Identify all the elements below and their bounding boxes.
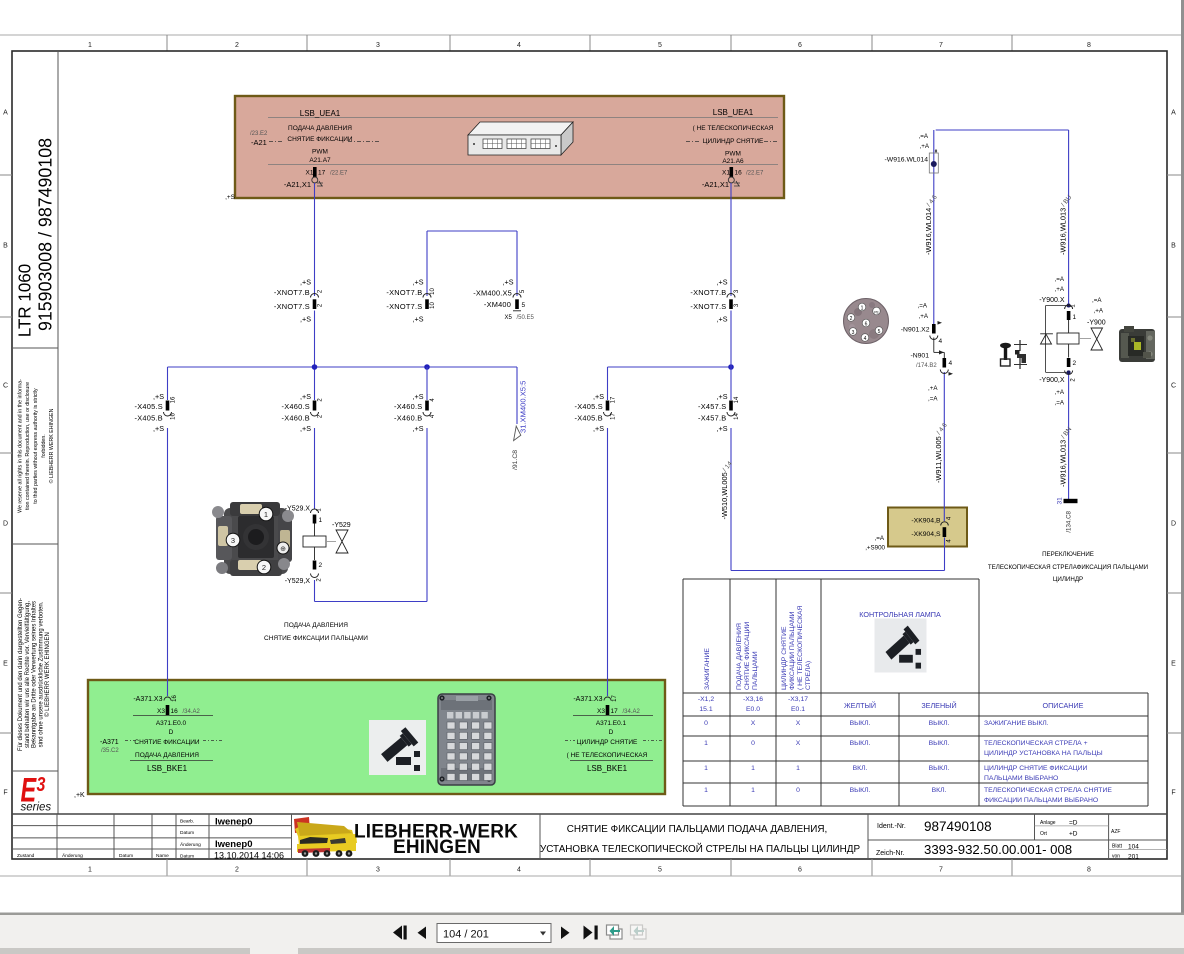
svg-text:ВЫКЛ.: ВЫКЛ. [929,740,950,747]
svg-text:0: 0 [796,787,800,794]
svg-text:-A371.X3: -A371.X3 [133,696,162,703]
svg-text:AZF: AZF [1111,829,1120,835]
svg-text:,+A: ,+A [1055,389,1065,396]
svg-text:E0.1: E0.1 [791,706,805,713]
svg-text:X1: X1 [722,170,730,177]
svg-text:ОПИСАНИЕ: ОПИСАНИЕ [1043,701,1084,710]
svg-text:Datum: Datum [180,854,194,860]
svg-text:© LIEBHERR WERK EHINGEN: © LIEBHERR WERK EHINGEN [48,408,55,483]
svg-text:© LIEBHERR WERK EHINGEN: © LIEBHERR WERK EHINGEN [44,632,51,717]
svg-text:ЦИЛИНДР: ЦИЛИНДР [1053,576,1083,583]
svg-text:X: X [751,720,756,727]
svg-text:-XM400: -XM400 [484,300,511,309]
svg-text:2: 2 [1073,360,1077,367]
svg-text:-Y529,X: -Y529,X [285,578,311,585]
svg-text:3: 3 [37,773,46,795]
svg-text:E: E [1171,661,1176,668]
svg-text:13.10.2014 14:06: 13.10.2014 14:06 [214,850,284,860]
svg-text:LSB_BKE1: LSB_BKE1 [147,764,188,773]
svg-text:0: 0 [751,740,755,747]
svg-text:PWM: PWM [725,151,741,158]
svg-text:,+S: ,+S [413,278,424,287]
svg-text:,+S: ,+S [300,278,311,287]
svg-text:17: 17 [318,170,326,177]
svg-text:10: 10 [430,302,436,309]
svg-text:/22.E7: /22.E7 [746,171,764,177]
svg-text:,+A: ,+A [920,143,930,150]
svg-text:16: 16 [171,413,177,420]
svg-text:-X3,16: -X3,16 [743,696,763,703]
svg-text:ЦИЛИНДР СНЯТИЕ: ЦИЛИНДР СНЯТИЕ [577,739,638,746]
svg-text:ПОДАЧА ДАВЛЕНИЯ: ПОДАЧА ДАВЛЕНИЯ [736,623,743,690]
svg-text:,+A: ,+A [928,385,938,392]
svg-text:PE: PE [874,311,879,315]
svg-text:-X457.S: -X457.S [698,402,726,411]
svg-text:1: 1 [88,42,92,49]
svg-text:⊕: ⊕ [280,546,286,553]
svg-text:D: D [3,521,8,528]
svg-text:104 / 201: 104 / 201 [443,929,489,941]
svg-text:1: 1 [861,306,864,312]
svg-text:1: 1 [796,765,800,772]
svg-text:ВЫКЛ.: ВЫКЛ. [850,720,871,727]
svg-text:( НЕ ТЕЛЕСКОПИЧЕСКАЯ: ( НЕ ТЕЛЕСКОПИЧЕСКАЯ [797,606,804,690]
svg-text:-N901.X2: -N901.X2 [901,327,930,334]
svg-text:Zustand: Zustand [17,853,35,859]
svg-text:1: 1 [751,765,755,772]
svg-text:-A21: -A21 [251,138,267,147]
svg-text:31: 31 [1057,497,1064,505]
svg-text:,+S: ,+S [413,392,424,401]
svg-text:СНЯТИЕ ФИКСАЦИИ: СНЯТИЕ ФИКСАЦИИ [744,622,751,690]
svg-text:-A371.X3: -A371.X3 [573,696,602,703]
svg-text:3393-932.50.00.001- 008: 3393-932.50.00.001- 008 [924,842,1072,857]
svg-text:15.1: 15.1 [699,706,712,713]
svg-text:СНЯТИЕ ФИКСАЦИИ: СНЯТИЕ ФИКСАЦИИ [134,739,200,746]
svg-text:ЗАЖИГАНИЕ ВЫКЛ.: ЗАЖИГАНИЕ ВЫКЛ. [984,720,1049,727]
svg-text:-W510,WL005: -W510,WL005 [720,472,729,519]
svg-text:von: von [1112,854,1120,860]
svg-text:17: 17 [611,708,619,715]
svg-text:1: 1 [1073,314,1077,321]
svg-text:C: C [1171,383,1176,390]
svg-text:,+K: ,+K [74,792,85,799]
svg-text:D: D [169,729,174,736]
svg-text:,=A: ,=A [919,133,929,140]
svg-text:( НЕ ТЕЛЕСКОПИЧЕСКАЯ: ( НЕ ТЕЛЕСКОПИЧЕСКАЯ [567,752,648,759]
svg-text:ВЫКЛ.: ВЫКЛ. [929,765,950,772]
svg-text:X3: X3 [597,708,605,715]
svg-text:-XNOT7.B: -XNOT7.B [690,288,726,297]
svg-text:СТРЕЛА): СТРЕЛА) [805,661,812,690]
svg-text:,+S: ,+S [300,424,311,433]
svg-text:A21.A6: A21.A6 [722,158,744,165]
svg-text:,=A: ,=A [1055,400,1065,407]
svg-text:/35.C2: /35.C2 [101,748,119,754]
svg-text:2: 2 [235,867,239,874]
svg-text:6: 6 [865,322,868,328]
svg-text:5: 5 [658,867,662,874]
svg-text:Blatt: Blatt [1112,844,1123,850]
svg-text:/174.B2: /174.B2 [916,363,937,369]
svg-text:ВКЛ.: ВКЛ. [932,787,947,794]
svg-text:B: B [3,243,8,250]
svg-text:ПОДАЧА ДАВЛЕНИЯ: ПОДАЧА ДАВЛЕНИЯ [135,752,199,759]
svg-text:-X405.S: -X405.S [575,402,603,411]
svg-text:forbidden.: forbidden. [41,434,47,458]
svg-text:,+S: ,+S [300,315,311,324]
svg-text:-Y900,X: -Y900,X [1039,377,1065,384]
svg-text:A371.E0.1: A371.E0.1 [596,720,627,727]
svg-text:,=A: ,=A [1092,297,1102,304]
svg-text:,+S: ,+S [300,392,311,401]
svg-text:/50.E5: /50.E5 [517,315,535,321]
svg-text:/34.A2: /34.A2 [623,709,641,715]
svg-text:-X3,17: -X3,17 [788,696,808,703]
svg-text:We reserve all rights in this: We reserve all rights in this document a… [17,379,23,513]
svg-text:-N901: -N901 [910,353,929,360]
svg-text:/91.C8: /91.C8 [512,450,519,470]
svg-text:0: 0 [704,720,708,727]
svg-text:17: 17 [611,396,617,403]
svg-text:stand behalten wir uns alle Re: stand behalten wir uns alle Rechte vor. … [25,601,31,748]
svg-text:Änderung: Änderung [180,841,201,848]
svg-text:16: 16 [172,695,178,702]
svg-text:ПЕРЕКЛЮЧЕНИЕ: ПЕРЕКЛЮЧЕНИЕ [1042,551,1094,558]
svg-text:ТЕЛЕСКОПИЧЕСКАЯ СТРЕЛА СНЯТИЕ: ТЕЛЕСКОПИЧЕСКАЯ СТРЕЛА СНЯТИЕ [984,787,1112,794]
svg-text:( НЕ ТЕЛЕСКОПИЧЕСКАЯ: ( НЕ ТЕЛЕСКОПИЧЕСКАЯ [693,125,774,132]
svg-text:LSB_UEA1: LSB_UEA1 [300,109,341,118]
svg-text:1: 1 [751,787,755,794]
svg-text:ВЫКЛ.: ВЫКЛ. [850,787,871,794]
svg-text:СНЯТИЕ ФИКСАЦИИ: СНЯТИЕ ФИКСАЦИИ [287,136,353,143]
svg-text:-XM400.X5: -XM400.X5 [473,289,512,298]
svg-text:,+A: ,+A [919,313,929,320]
svg-text:5: 5 [658,42,662,49]
svg-text:Datum: Datum [119,853,133,859]
svg-text:-Y900.X: -Y900.X [1039,297,1065,304]
svg-text:ТЕЛЕСКОПИЧЕСКАЯ СТРЕЛА +: ТЕЛЕСКОПИЧЕСКАЯ СТРЕЛА + [984,740,1088,747]
svg-text:3: 3 [376,867,380,874]
svg-text:,+A: ,+A [1055,286,1065,293]
svg-text:3: 3 [376,42,380,49]
svg-text:-W916,WL013: -W916,WL013 [1059,440,1068,487]
svg-text:,+S: ,+S [717,278,728,287]
svg-text:СНЯТИЕ ФИКСАЦИИ ПАЛЬЦАМИ: СНЯТИЕ ФИКСАЦИИ ПАЛЬЦАМИ [264,635,368,642]
svg-text:3: 3 [231,536,235,545]
svg-text:E: E [3,661,8,668]
svg-text:Bekanntgabe an Dritte oder Ver: Bekanntgabe an Dritte oder Verwertung se… [32,601,38,748]
svg-text:14: 14 [734,396,740,403]
svg-text:Name: Name [156,853,169,859]
svg-text:-XNOT7.B: -XNOT7.B [386,288,422,297]
svg-text:EHINGEN: EHINGEN [393,837,481,858]
svg-text:-XK904,S: -XK904,S [911,531,941,538]
svg-text:2: 2 [319,562,323,569]
svg-text:PWM: PWM [312,149,328,156]
svg-text:-W911,WL005: -W911,WL005 [934,436,943,483]
svg-text:14: 14 [734,413,740,420]
svg-text:4: 4 [517,42,521,49]
svg-text:5: 5 [878,329,881,335]
svg-text:,+S: ,+S [593,424,604,433]
svg-text:Datum: Datum [180,830,194,836]
svg-text:,+S: ,+S [413,315,424,324]
svg-text:,+S: ,+S [503,278,514,287]
svg-text:,+S: ,+S [225,194,236,201]
svg-text:ПАЛЬЦАМИ: ПАЛЬЦАМИ [752,651,759,690]
svg-text:LTR 1060: LTR 1060 [14,264,34,338]
svg-text:Ort: Ort [1040,831,1048,837]
svg-text:E0.0: E0.0 [746,706,760,713]
svg-text:-X460.B: -X460.B [394,414,422,423]
svg-text:X: X [796,720,801,727]
svg-text:1: 1 [264,510,268,519]
svg-text:-X1,2: -X1,2 [698,696,714,703]
svg-text:Ident.-Nr.: Ident.-Nr. [877,823,906,830]
svg-text:,+S: ,+S [593,392,604,401]
svg-text:СНЯТИЕ ФИКСАЦИИ ПАЛЬЦАМИ ПОДАЧ: СНЯТИЕ ФИКСАЦИИ ПАЛЬЦАМИ ПОДАЧА ДАВЛЕНИЯ… [567,824,828,835]
svg-text:B: B [1171,243,1176,250]
svg-text:8: 8 [1087,867,1091,874]
svg-text:ЦИЛИНДР СНЯТИЕ: ЦИЛИНДР СНЯТИЕ [781,626,788,690]
svg-text:2: 2 [850,316,853,322]
svg-text:C: C [3,383,8,390]
svg-text:/34.A2: /34.A2 [183,709,201,715]
svg-text:ЦИЛИНДР СНЯТИЕ: ЦИЛИНДР СНЯТИЕ [703,138,764,145]
svg-text:-X460.S: -X460.S [282,402,310,411]
svg-text:ФИКСАЦИИ ПАЛЬЦАМИ: ФИКСАЦИИ ПАЛЬЦАМИ [789,611,796,690]
svg-text:,+S: ,+S [717,424,728,433]
svg-text:-Y529: -Y529 [332,522,351,529]
svg-text:Für dieses Dokument und den da: Für dieses Dokument und den darin darges… [18,598,24,751]
svg-text:-A21,X1: -A21,X1 [284,180,311,189]
svg-text:5: 5 [522,302,526,309]
svg-text:Bearb.: Bearb. [180,819,194,825]
svg-text:31.XM400.X5:5: 31.XM400.X5:5 [519,381,528,433]
svg-text:/23.E2: /23.E2 [250,131,268,137]
svg-text:ВКЛ.: ВКЛ. [853,765,868,772]
svg-text:ЗЕЛЕНЫЙ: ЗЕЛЕНЫЙ [921,701,956,710]
svg-text:1: 1 [704,787,708,794]
svg-text:A: A [1171,110,1176,117]
svg-text:7: 7 [939,867,943,874]
svg-text:4: 4 [517,867,521,874]
svg-text:ПОДАЧА ДАВЛЕНИЯ: ПОДАЧА ДАВЛЕНИЯ [284,622,348,629]
svg-text:sind ohne unsere ausdrückliche: sind ohne unsere ausdrückliche Zustimmun… [38,601,44,747]
svg-text:,+S900: ,+S900 [865,545,885,552]
svg-text:-A371: -A371 [100,739,119,746]
svg-text:915903008 / 987490108: 915903008 / 987490108 [34,138,56,331]
svg-text:ТЕЛЕСКОПИЧЕСКАЯ СТРЕЛАФИКСАЦИЯ: ТЕЛЕСКОПИЧЕСКАЯ СТРЕЛАФИКСАЦИЯ ПАЛЬЦАМИ [988,564,1148,571]
svg-text:17: 17 [612,695,618,702]
svg-text:-XNOT7.S: -XNOT7.S [690,302,726,311]
svg-text:+D: +D [1069,831,1078,838]
svg-text:LSB_BKE1: LSB_BKE1 [587,764,628,773]
svg-text:to third parties without expre: to third parties without express authori… [33,388,39,504]
svg-text:ПОДАЧА ДАВЛЕНИЯ: ПОДАЧА ДАВЛЕНИЯ [288,125,352,132]
svg-text:8: 8 [1087,42,1091,49]
svg-text:-W916,WL014: -W916,WL014 [924,208,933,255]
svg-text:17: 17 [611,413,617,420]
svg-text:-X457.B: -X457.B [698,414,726,423]
svg-text:F: F [3,790,7,797]
svg-text:,=A: ,=A [918,303,928,310]
svg-text:-X460.B: -X460.B [282,414,310,423]
svg-text:1: 1 [704,740,708,747]
svg-text:=D: =D [1069,820,1078,827]
svg-text:,=A: ,=A [875,535,885,542]
svg-text:Iwenep0: Iwenep0 [215,839,253,850]
svg-text:2: 2 [235,42,239,49]
svg-text:-X405.B: -X405.B [575,414,603,423]
svg-text:987490108: 987490108 [924,819,992,834]
svg-text:,+S: ,+S [717,315,728,324]
svg-text:A371.E0.0: A371.E0.0 [156,720,187,727]
svg-text:,+S: ,+S [717,392,728,401]
svg-text:F: F [1171,790,1175,797]
svg-text:LSB_UEA1: LSB_UEA1 [713,108,754,117]
svg-text:2: 2 [262,563,266,572]
svg-text:-X460.S: -X460.S [394,402,422,411]
svg-text:ФИКСАЦИИ ПАЛЬЦАМИ ВЫБРАНО: ФИКСАЦИИ ПАЛЬЦАМИ ВЫБРАНО [984,797,1098,804]
svg-text:,=A: ,=A [1055,276,1065,283]
svg-text:X1: X1 [306,170,314,177]
svg-text:-X405.S: -X405.S [135,402,163,411]
svg-text:УСТАНОВКА ТЕЛЕСКОПИЧЕСКОЙ СТРЕ: УСТАНОВКА ТЕЛЕСКОПИЧЕСКОЙ СТРЕЛЫ НА ПАЛЬ… [540,843,861,855]
svg-text:ЗАЖИГАНИЕ: ЗАЖИГАНИЕ [704,648,711,690]
svg-text:X5: X5 [505,315,513,321]
svg-text:/134.C8: /134.C8 [1066,510,1073,532]
svg-text:104: 104 [1128,844,1139,851]
svg-text:1: 1 [704,765,708,772]
svg-text:ЖЕЛТЫЙ: ЖЕЛТЫЙ [844,701,876,710]
svg-text:КОНТРОЛЬНАЯ ЛАМПА: КОНТРОЛЬНАЯ ЛАМПА [859,610,941,619]
svg-text:,+S: ,+S [153,424,164,433]
svg-text:X3: X3 [157,708,165,715]
svg-text:1: 1 [88,867,92,874]
svg-text:Anlage: Anlage [1040,820,1056,826]
svg-text:3: 3 [852,330,855,336]
svg-text:ЦИЛИНДР УСТАНОВКА НА ПАЛЬЦЫ: ЦИЛИНДР УСТАНОВКА НА ПАЛЬЦЫ [984,750,1103,757]
svg-text:-W916.WL014: -W916.WL014 [885,157,929,164]
svg-text:-XK904,B: -XK904,B [911,518,941,525]
svg-text:Zeich-Nr.: Zeich-Nr. [876,850,904,857]
svg-text:6: 6 [798,42,802,49]
svg-text:,+A: ,+A [1094,308,1104,315]
svg-text:-XNOT7.S: -XNOT7.S [386,302,422,311]
svg-text:-X405.B: -X405.B [135,414,163,423]
svg-text:,+S: ,+S [153,392,164,401]
svg-text:-XNOT7.B: -XNOT7.B [274,288,310,297]
svg-text:/22.E7: /22.E7 [330,171,348,177]
svg-text:A: A [3,110,8,117]
svg-text:D: D [1171,521,1176,528]
svg-text:ВЫКЛ.: ВЫКЛ. [929,720,950,727]
svg-text:-XNOT7.S: -XNOT7.S [274,302,310,311]
svg-text:ВЫКЛ.: ВЫКЛ. [850,740,871,747]
svg-text:16: 16 [735,170,743,177]
svg-text:X: X [796,740,801,747]
svg-text:-W916,WL013: -W916,WL013 [1059,208,1068,255]
svg-text:1: 1 [319,517,323,524]
svg-text:-A21,X1: -A21,X1 [702,180,729,189]
svg-text:Änderung: Änderung [62,852,83,859]
svg-text:4: 4 [949,360,953,367]
svg-text:7: 7 [939,42,943,49]
svg-text:Iwenep0: Iwenep0 [215,817,253,828]
svg-text:16: 16 [171,396,177,403]
svg-text:10: 10 [430,288,436,295]
svg-text:ЦИЛИНДР СНЯТИЕ ФИКСАЦИИ: ЦИЛИНДР СНЯТИЕ ФИКСАЦИИ [984,765,1088,772]
svg-text:,=A: ,=A [928,396,938,403]
svg-text:4: 4 [939,338,943,345]
svg-text:4: 4 [864,336,867,342]
svg-text:ПАЛЬЦАМИ ВЫБРАНО: ПАЛЬЦАМИ ВЫБРАНО [984,775,1058,782]
svg-text:6: 6 [798,867,802,874]
svg-text:A21.A7: A21.A7 [309,157,331,164]
svg-text:201: 201 [1128,854,1139,861]
svg-text:tion contained therein. Reprod: tion contained therein. Reproduction, us… [25,382,31,510]
svg-text:series: series [21,802,52,814]
svg-text:,+S: ,+S [413,424,424,433]
svg-text:-Y900: -Y900 [1087,320,1106,327]
svg-text:D: D [609,729,614,736]
svg-text:16: 16 [171,708,179,715]
